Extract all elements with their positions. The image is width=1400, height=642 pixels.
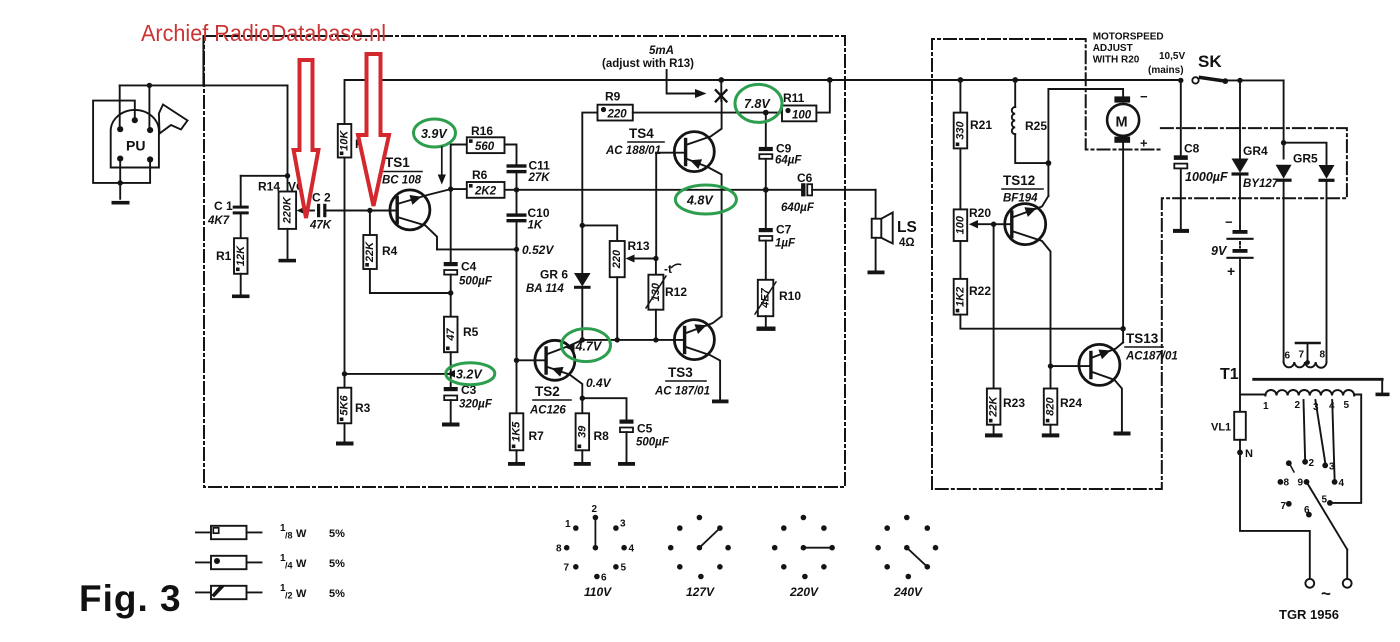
svg-text:64µF: 64µF [775, 155, 802, 167]
svg-text:100: 100 [792, 109, 812, 121]
svg-text:−: − [1225, 215, 1233, 230]
node rail/R21 [958, 77, 964, 83]
node motor/TS13/R22 [1120, 326, 1125, 331]
svg-text:5%: 5% [329, 528, 345, 540]
svg-text:4.8V: 4.8V [686, 194, 714, 208]
capacitor C7 [759, 190, 796, 280]
svg-text:TGR 1956: TGR 1956 [1279, 607, 1339, 622]
node GR6/TS2 collector [580, 337, 585, 342]
node R4/C4/R5 [448, 290, 453, 295]
svg-text:7.8V: 7.8V [744, 97, 771, 111]
resistor R16 [467, 124, 505, 153]
label MOTORSPEED ADJUST WITH R20 [1093, 32, 1164, 66]
node R25/motor/TS12 collector [1046, 160, 1052, 166]
battery 9V [1211, 215, 1253, 395]
svg-text:GR 6: GR 6 [540, 268, 568, 282]
svg-text:T1: T1 [1220, 366, 1239, 383]
ground (R1) [232, 295, 250, 299]
svg-text:+: + [1140, 136, 1148, 151]
svg-text:2K2: 2K2 [474, 186, 497, 198]
node rail/R25 [1012, 77, 1018, 83]
svg-text:Archief RadioDatabase.nl: Archief RadioDatabase.nl [141, 20, 386, 46]
svg-text:8: 8 [1320, 350, 1326, 361]
svg-text:4.7V: 4.7V [575, 340, 603, 354]
wire node down to TS12 collector [1047, 163, 1049, 196]
ground (R3) [336, 442, 354, 446]
diode GR5 (left) [1276, 152, 1318, 363]
PU input connector [93, 85, 287, 198]
wire TS2 collector line [582, 339, 684, 341]
svg-text:R4: R4 [382, 244, 398, 258]
svg-text:R23: R23 [1003, 396, 1025, 410]
svg-text:4: 4 [1339, 478, 1345, 489]
svg-text:10,5V: 10,5V [1159, 51, 1185, 62]
wire TS1 emitter line 0.52V [437, 248, 517, 250]
svg-text:8: 8 [1284, 478, 1290, 489]
svg-text:C5: C5 [637, 422, 653, 436]
wire right terminal up to wiper [1346, 550, 1348, 579]
svg-text:2: 2 [1295, 400, 1301, 411]
svg-text:7: 7 [1299, 350, 1305, 361]
svg-text:C4: C4 [461, 260, 477, 274]
transistor TS12 [994, 173, 1051, 366]
svg-text:5%: 5% [329, 558, 345, 570]
svg-text:+: + [1227, 263, 1235, 279]
resistor R1 [216, 238, 248, 294]
wire 3.2V node line [345, 373, 451, 375]
node rail/X [718, 77, 724, 83]
wire N down to AC terminal [1240, 452, 1310, 578]
svg-text:R20: R20 [969, 206, 991, 220]
capacitor C1 [207, 176, 249, 238]
AC terminal left [1305, 579, 1314, 588]
transistor TS1 [382, 155, 451, 249]
node wiper on R12 line [653, 256, 658, 261]
svg-text:7: 7 [564, 563, 570, 574]
svg-text:2: 2 [592, 504, 598, 515]
measuring point X [716, 80, 727, 101]
svg-text:1: 1 [565, 519, 571, 530]
svg-text:22K: 22K [364, 241, 376, 263]
motor circuit dash-dot border box [932, 39, 1347, 489]
wire: rail after switch SK [1225, 79, 1283, 81]
resistor R21 [954, 80, 993, 209]
svg-text:SK: SK [1198, 52, 1222, 71]
wiper arrow of R14 [297, 207, 315, 215]
svg-text:BF194: BF194 [1003, 193, 1038, 205]
node 7.8V/C9 [763, 110, 769, 116]
capacitor C10 [507, 190, 550, 250]
svg-text:BA 114: BA 114 [526, 283, 564, 295]
svg-text:TS13: TS13 [1126, 331, 1159, 346]
transistor TS13 [1051, 331, 1178, 432]
capacitor C11 [507, 159, 551, 190]
wire TS12 base to R23 [993, 224, 995, 388]
measured voltage 4.7V [562, 329, 611, 362]
svg-text:C10: C10 [528, 206, 550, 220]
measured voltage 4.8V [675, 185, 736, 214]
svg-text:/4: /4 [285, 561, 293, 571]
potentiometer R14 (VOL) [258, 85, 313, 258]
resistor R4 [363, 211, 450, 294]
svg-text:220: 220 [607, 109, 628, 121]
capacitor C6 [766, 171, 876, 214]
svg-text:C 2: C 2 [312, 191, 331, 205]
diode GR4 BY127 [1232, 80, 1279, 230]
svg-text:BY127: BY127 [1243, 178, 1279, 190]
capacitor C4 [444, 260, 493, 294]
terminal bar (C8) [1173, 229, 1189, 233]
svg-text:2: 2 [1309, 458, 1315, 469]
main amplifier dash-dot border box [204, 36, 845, 487]
node TS12 base [991, 222, 996, 227]
measured voltage 3.2V [446, 363, 495, 385]
svg-text:LS: LS [897, 219, 917, 236]
svg-text:R21: R21 [970, 118, 992, 132]
svg-text:47: 47 [445, 328, 457, 342]
wire collector node up to R16 [451, 145, 467, 190]
label 10,5V (mains) [1148, 51, 1185, 76]
svg-text:AC126: AC126 [529, 405, 566, 417]
svg-text:C7: C7 [776, 223, 792, 237]
voltage selector 110V [556, 504, 635, 599]
svg-text:R22: R22 [969, 284, 991, 298]
measured voltage 3.9V [414, 119, 456, 185]
wire C4 column [450, 189, 452, 262]
svg-text:1: 1 [1263, 401, 1269, 412]
red arrow (TS1 base) [358, 54, 389, 206]
svg-text:500µF: 500µF [459, 276, 493, 288]
node TS2 base/R7 [514, 358, 519, 363]
svg-text:5: 5 [1344, 400, 1350, 411]
svg-text:10K: 10K [339, 130, 351, 151]
node rail/GR4 [1237, 78, 1242, 83]
node TS1 base / R4 [367, 208, 372, 213]
legend 1/4W resistor [196, 553, 345, 571]
ground (R7) [508, 462, 525, 466]
svg-text:TS2: TS2 [535, 384, 560, 399]
wire rail end to GR5 diode A [1283, 80, 1285, 158]
svg-text:5K6: 5K6 [339, 395, 351, 416]
contact number labels T1 [1281, 458, 1345, 516]
resistor R13 (preset) [610, 239, 650, 340]
svg-text:R6: R6 [472, 168, 488, 182]
primary tap 3 [1315, 400, 1325, 463]
svg-text:C6: C6 [797, 171, 813, 185]
svg-text:6: 6 [1285, 351, 1291, 362]
ground (PU) [112, 201, 130, 205]
svg-text:5: 5 [621, 563, 627, 574]
svg-text:1K2: 1K2 [955, 287, 967, 307]
svg-text:1K: 1K [528, 220, 543, 232]
diode GR5 (right) [1319, 165, 1335, 362]
svg-text:6: 6 [601, 573, 607, 584]
wire C1 top to R14 column [241, 175, 288, 177]
capacitor C2 [309, 191, 332, 232]
svg-text:TS3: TS3 [668, 365, 693, 380]
ground (R10) [757, 327, 776, 331]
wire R2 bottom to R3 top [344, 158, 346, 388]
resistor R2 [338, 80, 371, 158]
node TS2 emitter 0.4V [580, 396, 585, 401]
svg-text:R14: R14 [258, 180, 280, 194]
svg-text:3: 3 [620, 519, 626, 530]
node: signal wire junction above PU [147, 83, 152, 88]
node C1/R14 [285, 173, 290, 178]
red arrow (VOL) [294, 60, 319, 218]
wire C2 to TS1 base [326, 210, 397, 212]
capacitor C8 [1174, 80, 1228, 229]
node R6/C11/C10 [514, 187, 519, 192]
node R13 branch [580, 223, 585, 228]
svg-text:C9: C9 [776, 142, 792, 156]
svg-text:~: ~ [1321, 584, 1331, 603]
capacitor C3 [444, 383, 493, 423]
resistor R7 [510, 360, 544, 462]
potentiometer R20 [954, 206, 992, 279]
svg-text:W: W [296, 558, 307, 570]
svg-text:AC 187/01: AC 187/01 [654, 386, 710, 398]
svg-text:R13: R13 [628, 239, 650, 253]
svg-text:R8: R8 [594, 429, 610, 443]
node TS13 base/R24 [1048, 363, 1053, 368]
primary winding [1265, 390, 1354, 396]
svg-text:500µF: 500µF [636, 437, 670, 449]
svg-text:N: N [1245, 448, 1253, 460]
capacitor C5 [582, 398, 670, 462]
node R13 bottom [615, 337, 620, 342]
svg-text:GR4: GR4 [1243, 144, 1268, 158]
svg-text:(mains): (mains) [1148, 65, 1184, 76]
svg-text:-t: -t [664, 262, 672, 276]
motor M [1107, 89, 1148, 151]
ground (C5) [618, 462, 635, 466]
wire jog to diode B [1284, 143, 1327, 165]
svg-text:TS12: TS12 [1003, 173, 1035, 188]
svg-text:R1: R1 [216, 249, 232, 263]
wire 7.8V line R9 to R11 [633, 112, 782, 114]
ground (LS) [868, 271, 885, 275]
svg-text:W: W [296, 588, 307, 600]
svg-text:4Ω: 4Ω [899, 237, 915, 249]
ground (C3) [442, 423, 460, 427]
svg-text:8: 8 [556, 544, 562, 555]
ground (R14) [279, 259, 297, 263]
resistor R9 [582, 90, 633, 226]
AC terminal right [1343, 579, 1352, 588]
resistor R8 [576, 398, 610, 462]
svg-text:GR5: GR5 [1293, 152, 1318, 166]
svg-text:W: W [296, 528, 307, 540]
svg-text:C8: C8 [1184, 142, 1200, 156]
loudspeaker LS [872, 190, 917, 271]
selector contact dots T1 [1278, 459, 1338, 518]
svg-text:27K: 27K [528, 172, 551, 184]
wire branch to R13 [582, 225, 617, 241]
svg-text:R9: R9 [605, 90, 621, 104]
node 4.8V/C9/C7 [763, 187, 769, 193]
wire: border stub left box top [202, 36, 204, 85]
switch SK [1192, 52, 1228, 84]
svg-text:1µF: 1µF [775, 238, 796, 250]
svg-text:100: 100 [955, 215, 967, 234]
wire R6 right node [505, 189, 517, 191]
wiper arrow R20/TS12 base [969, 220, 994, 228]
svg-text:R12: R12 [665, 285, 687, 299]
node R12 bottom [653, 337, 658, 342]
svg-text:/8: /8 [285, 531, 293, 541]
svg-text:AC187/01: AC187/01 [1125, 351, 1178, 363]
wire 0.52V down to TS2 base [516, 249, 518, 360]
wire TS4 base down to R12 top [655, 153, 657, 259]
svg-text:330: 330 [955, 120, 967, 139]
svg-text:4K7: 4K7 [207, 215, 230, 227]
svg-text:220K: 220K [281, 196, 293, 224]
arrow adjust-> X [667, 70, 707, 98]
primary tap 5 [1333, 395, 1361, 503]
wire TS4 emitter down to TS3 collector [721, 190, 723, 317]
svg-text:220V: 220V [789, 585, 819, 599]
transistor TS3 [654, 316, 721, 399]
svg-text:M: M [1116, 115, 1128, 131]
svg-text:0.52V: 0.52V [522, 243, 554, 257]
svg-text:WITH R20: WITH R20 [1093, 55, 1140, 66]
voltage selector 127V [668, 515, 731, 599]
node N [1237, 448, 1253, 460]
fuse VL1 [1211, 412, 1246, 453]
ground (TS13) [1114, 432, 1131, 436]
svg-text:110V: 110V [584, 585, 612, 599]
svg-text:R3: R3 [355, 401, 371, 415]
node TS1 collector [448, 186, 453, 191]
svg-text:/2: /2 [285, 591, 293, 601]
svg-text:7: 7 [1281, 501, 1287, 512]
resistor R10 [755, 280, 801, 327]
core line [1254, 378, 1383, 381]
svg-text:9: 9 [1298, 478, 1304, 489]
node R11/rail [827, 77, 833, 83]
resistor R5 [444, 293, 479, 387]
resistor R12 (NTC -t) [646, 259, 687, 340]
svg-text:R16: R16 [471, 124, 493, 138]
svg-text:240V: 240V [893, 585, 923, 599]
transistor TS4 [605, 101, 722, 190]
svg-text:R5: R5 [463, 325, 479, 339]
voltage selector 220V [772, 515, 835, 599]
legend 1/2W resistor [196, 583, 345, 601]
svg-text:ADJUST: ADJUST [1093, 43, 1133, 54]
resistor R22 [954, 279, 1123, 329]
primary tap 4 [1332, 400, 1334, 479]
transistor TS2 [517, 340, 583, 417]
svg-text:22K: 22K [988, 395, 1000, 417]
resistor R23 [987, 389, 1025, 434]
resistor R11 [782, 80, 830, 121]
svg-text:1K5: 1K5 [511, 421, 523, 442]
wire R16 right to C11 [505, 145, 517, 165]
svg-text:3: 3 [1329, 462, 1335, 473]
selector wiper 9 to terminal [1307, 482, 1348, 550]
svg-text:R11: R11 [783, 91, 805, 105]
capacitor C9 [759, 113, 803, 190]
svg-text:MOTORSPEED: MOTORSPEED [1093, 32, 1164, 43]
legend 1/8W resistor [196, 523, 345, 541]
svg-text:R7: R7 [529, 429, 545, 443]
svg-text:47K: 47K [309, 220, 332, 232]
svg-text:TS4: TS4 [629, 126, 654, 141]
wiper arrow R13/R12 [626, 255, 656, 263]
resistor R24 [1044, 366, 1083, 433]
diode GR6 BA114 [526, 225, 591, 340]
ground (R23) [985, 433, 1003, 437]
svg-text:BC 108: BC 108 [382, 175, 422, 187]
svg-text:39: 39 [576, 425, 588, 438]
node SK left / C8 branch [1178, 78, 1183, 83]
svg-text:820: 820 [1045, 397, 1057, 416]
svg-text:12K: 12K [235, 245, 247, 266]
svg-text:1000µF: 1000µF [1185, 170, 1228, 184]
svg-text:5%: 5% [329, 588, 345, 600]
ground (TS3) [712, 400, 729, 404]
wire: supply rail y=80 [345, 79, 1181, 81]
svg-text:220: 220 [611, 249, 623, 269]
svg-text:TS1: TS1 [385, 155, 410, 170]
svg-text:PU: PU [126, 138, 145, 154]
transformer T1 [1220, 343, 1390, 413]
secondary winding [1284, 362, 1327, 368]
svg-text:4: 4 [629, 544, 635, 555]
svg-text:3.2V: 3.2V [456, 368, 483, 382]
svg-text:5: 5 [1322, 495, 1328, 506]
svg-text:6: 6 [1304, 505, 1310, 516]
wire motor plus down to TS13 collector [1122, 143, 1124, 343]
svg-text:127V: 127V [686, 585, 715, 599]
svg-text:9V: 9V [1211, 244, 1228, 258]
resistor R6 [467, 168, 505, 198]
svg-text:AC 188/01: AC 188/01 [605, 145, 661, 157]
svg-text:−: − [1140, 89, 1148, 104]
wire collector node to R6 [451, 188, 467, 190]
wire node up to motor minus [1048, 89, 1123, 163]
svg-text:C11: C11 [529, 159, 551, 173]
ground (R8) [574, 462, 591, 466]
primary tap 2 [1304, 400, 1306, 459]
wire main 4.8V feedback line [517, 189, 766, 191]
node 0.52V [514, 247, 519, 252]
svg-text:R25: R25 [1025, 119, 1047, 133]
svg-text:(adjust with R13): (adjust with R13) [602, 58, 694, 70]
svg-text:5mA: 5mA [649, 45, 674, 57]
svg-text:Fig. 3: Fig. 3 [79, 578, 182, 619]
secondary center tap [1307, 345, 1309, 362]
voltage selector 240V [875, 515, 938, 599]
node diode jog [1281, 140, 1286, 145]
inductor R25 [1012, 80, 1049, 163]
svg-text:VL1: VL1 [1211, 422, 1231, 434]
svg-text:560: 560 [475, 141, 495, 153]
svg-text:C 1: C 1 [214, 199, 233, 213]
svg-text:3.9V: 3.9V [421, 127, 448, 141]
svg-text:640µF: 640µF [781, 202, 815, 214]
svg-text:R24: R24 [1060, 396, 1082, 410]
svg-text:320µF: 320µF [459, 399, 493, 411]
svg-text:R10: R10 [779, 289, 801, 303]
measured voltage 7.8V [735, 84, 782, 122]
ground (R24) [1042, 433, 1060, 437]
resistor R3 [338, 388, 371, 442]
node 3.2V line left [342, 371, 347, 376]
svg-text:0.4V: 0.4V [586, 376, 612, 390]
